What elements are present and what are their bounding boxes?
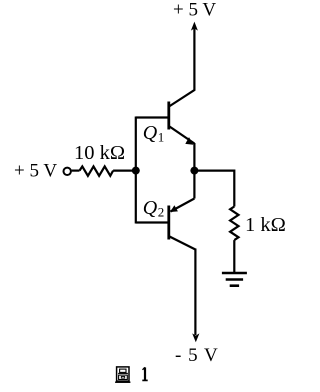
- ground symbol: [222, 273, 247, 286]
- wire: output to resistor R2: [194, 171, 234, 207]
- transistor Q1 emitter arrowhead: [185, 137, 193, 145]
- node: output junction dot: [190, 167, 198, 175]
- caption: figure character (tu): [115, 367, 130, 382]
- svg-text:+ 5 V: + 5 V: [14, 161, 57, 182]
- transistor Q2 emitter: [171, 199, 195, 212]
- wire: emitters vertical (Q1 emitter to Q2 emitter): [193, 143, 195, 199]
- svg-text:- 5 V: - 5 V: [175, 345, 219, 366]
- wire: Q2 collector to -5V supply: [194, 249, 196, 336]
- transistor Q1 base bar: [167, 102, 170, 130]
- svg-text:+ 5 V: + 5 V: [173, 0, 216, 21]
- wire: terminal to resistor R1: [72, 170, 80, 172]
- resistor R1 10k zigzag: [80, 166, 114, 175]
- svg-text:1 kΩ: 1 kΩ: [245, 214, 286, 236]
- wire: +5V supply to Q1 collector: [169, 27, 194, 107]
- svg-text:Q: Q: [143, 197, 158, 219]
- transistor Q2 base bar: [167, 206, 170, 240]
- transistor Q2 collector: [170, 237, 196, 250]
- input terminal open circle: [63, 168, 70, 175]
- svg-text:2: 2: [158, 204, 165, 219]
- wire: resistor R2 to ground: [233, 240, 235, 272]
- wire: resistor R1 to junction: [113, 170, 136, 172]
- node: input junction dot: [132, 167, 140, 175]
- transistor Q2 emitter arrowhead: [170, 205, 178, 212]
- svg-text:10 kΩ: 10 kΩ: [74, 142, 125, 164]
- power +5V top arrow: [191, 22, 198, 31]
- wire: Q1 base wire: [136, 116, 169, 118]
- transistor Q1 emitter: [170, 127, 195, 144]
- svg-text:Q: Q: [143, 122, 158, 144]
- svg-text:1: 1: [158, 129, 165, 144]
- resistor R2 1k zigzag: [230, 207, 238, 241]
- caption: figure number 1: [142, 367, 147, 380]
- wire: left vertical bus (Q1 base to Q2 base): [135, 117, 137, 224]
- wire: Q2 base wire: [136, 221, 169, 223]
- power -5V bottom arrow: [192, 333, 199, 342]
